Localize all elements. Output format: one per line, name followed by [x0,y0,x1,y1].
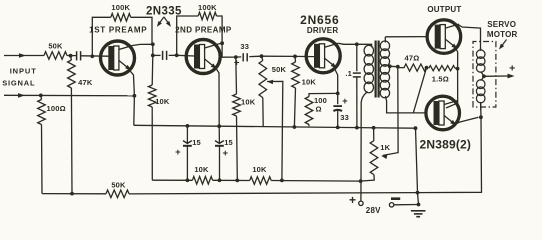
svg-text:+: + [175,147,181,158]
svg-text:+: + [342,96,348,107]
svg-text:100K: 100K [111,3,130,12]
svg-text:10K: 10K [155,97,170,106]
svg-text:33: 33 [340,113,349,122]
svg-text:15: 15 [224,138,233,147]
svg-text:47Ω: 47Ω [405,54,420,63]
svg-text:INPUT: INPUT [10,66,37,75]
svg-text:28V: 28V [366,206,381,215]
svg-text:OUTPUT: OUTPUT [427,5,461,14]
svg-text:10K: 10K [194,165,209,174]
svg-text:+: + [349,193,356,207]
svg-text:10K: 10K [302,78,317,87]
svg-text:47K: 47K [78,78,93,87]
svg-text:1K: 1K [380,143,390,152]
svg-text:10K: 10K [241,98,256,107]
svg-text:50K: 50K [111,181,126,190]
svg-text:100K: 100K [198,3,217,12]
svg-text:SIGNAL: SIGNAL [2,78,35,87]
svg-text:33: 33 [240,42,249,51]
svg-text:15: 15 [192,138,201,147]
svg-text:1ST PREAMP: 1ST PREAMP [89,26,147,35]
svg-text:2N335: 2N335 [146,6,182,18]
svg-text:+: + [223,148,229,159]
svg-text:Ω: Ω [315,104,321,113]
svg-text:2ND PREAMP: 2ND PREAMP [175,26,232,35]
svg-text:.1: .1 [345,69,352,78]
svg-text:SERVO: SERVO [487,20,516,29]
svg-text:1.5Ω: 1.5Ω [432,75,449,84]
svg-text:50K: 50K [48,41,63,50]
svg-text:10K: 10K [252,165,267,174]
svg-text:100Ω: 100Ω [47,104,66,113]
svg-text:+: + [509,63,515,75]
svg-text:2N656: 2N656 [300,13,339,27]
svg-text:DRIVER: DRIVER [307,26,338,35]
svg-text:2N389(2): 2N389(2) [420,138,472,152]
svg-text:50K: 50K [272,65,287,74]
svg-text:+: + [234,58,240,69]
svg-text:MOTOR: MOTOR [487,30,518,39]
